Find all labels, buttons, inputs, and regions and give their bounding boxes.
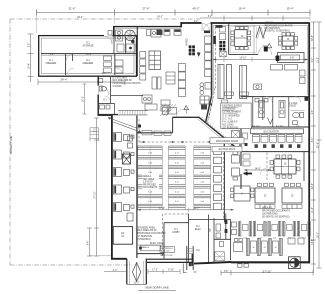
svg-text:16'-2": 16'-2" bbox=[83, 96, 85, 102]
mid prep column bbox=[178, 64, 185, 72]
svg-text:4 x4: 4 x4 bbox=[200, 162, 204, 164]
svg-text:10: 10 bbox=[264, 196, 267, 198]
mid 2-top square column bbox=[214, 148, 222, 210]
MAIN DINING ROOM label boxes bbox=[210, 138, 244, 144]
svg-text:24'-7": 24'-7" bbox=[194, 208, 200, 210]
step wall at x181 bbox=[180, 22, 182, 27]
svg-text:4 x4: 4 x4 bbox=[200, 172, 204, 174]
svg-text:17'-2": 17'-2" bbox=[152, 269, 158, 271]
svg-text:150 PERSONS: 150 PERSONS bbox=[262, 214, 278, 216]
svg-text:4 x4: 4 x4 bbox=[148, 201, 152, 203]
svg-text:27'-6": 27'-6" bbox=[142, 7, 149, 11]
dining top wall bbox=[181, 22, 310, 24]
bar stool bbox=[295, 136, 302, 142]
svg-text:8'-4": 8'-4" bbox=[88, 241, 90, 246]
prep room partition x114 bbox=[113, 37, 115, 54]
dim line 24-4 under freezer block bbox=[38, 81, 125, 83]
svg-text:4 STAFF: 4 STAFF bbox=[113, 85, 123, 88]
svg-text:D.1: D.1 bbox=[86, 43, 90, 45]
kitchen south equipment row bbox=[163, 108, 168, 115]
dining NE table 2 bbox=[283, 36, 294, 46]
restroom south wall bbox=[231, 126, 309, 128]
kitchen L-wall above corridor bbox=[173, 116, 200, 118]
travel path dashed in dining aisle bbox=[139, 141, 212, 143]
svg-text:5'-0": 5'-0" bbox=[95, 128, 97, 133]
property line left vertical dash-dot bbox=[9, 19, 11, 265]
svg-text:16: 16 bbox=[253, 247, 255, 249]
svg-text:6'-2": 6'-2" bbox=[208, 16, 213, 18]
bar counter band bbox=[251, 129, 304, 134]
extra range box left bbox=[147, 30, 151, 36]
storage door swing arc bbox=[105, 37, 113, 45]
SW rooms walls bbox=[189, 214, 231, 264]
GROUP: furniture and equipment bbox=[99, 25, 310, 267]
dining east aisle wall x224.5 bbox=[224, 139, 226, 222]
4-top cluster west of big tables bbox=[234, 186, 250, 201]
hatched dumbwaiter square bbox=[123, 154, 131, 164]
sink V between stalls bbox=[268, 118, 274, 125]
egress dash along slant divider bbox=[209, 88, 215, 118]
svg-text:16'-4": 16'-4" bbox=[238, 7, 245, 11]
bottom wall right section bbox=[231, 261, 310, 263]
svg-text:24'-4": 24'-4" bbox=[60, 78, 67, 82]
dark square grid at divider bbox=[219, 41, 222, 44]
svg-text:ELEV.: ELEV. bbox=[195, 229, 202, 231]
top dimension line bbox=[37, 12, 311, 14]
east room west closets bbox=[243, 133, 248, 139]
restroom block north wall bbox=[241, 96, 309, 98]
trash closet door arc bbox=[66, 55, 72, 61]
restroom stall fixtures bbox=[259, 101, 265, 118]
svg-text:MAIN DINING ROOM: MAIN DINING ROOM bbox=[216, 140, 238, 143]
exterior steps west bbox=[90, 128, 99, 141]
GROUP: building envelope bbox=[39, 22, 310, 284]
svg-text:PROPOSED OCCUPANTS: PROPOSED OCCUPANTS bbox=[265, 24, 293, 27]
svg-text:D.2: D.2 bbox=[196, 250, 200, 252]
tall equip columns kitchen south bbox=[152, 77, 157, 89]
label boxes on dining north wall bbox=[142, 130, 152, 135]
prep room lower sinks bbox=[117, 44, 124, 52]
shelving in freezer east room bbox=[104, 56, 112, 61]
west entry door arc bbox=[99, 85, 109, 95]
bottom wall west of vestibule bbox=[111, 258, 127, 260]
label boxes above text block bbox=[225, 92, 234, 95]
freezer partition west bbox=[65, 54, 67, 75]
A triangle marker kitchen bbox=[184, 106, 189, 110]
entry court dim vertical bbox=[84, 84, 86, 114]
right dim vertical outer bbox=[318, 22, 320, 268]
svg-text:4 x4: 4 x4 bbox=[175, 153, 179, 155]
right wall bbox=[308, 23, 310, 264]
svg-text:2'-8": 2'-8" bbox=[29, 43, 31, 48]
svg-text:3'-8": 3'-8" bbox=[224, 271, 229, 273]
left wall equipment stack bbox=[140, 52, 146, 59]
svg-text:16'-0": 16'-0" bbox=[318, 232, 320, 238]
svg-text:10: 10 bbox=[287, 39, 290, 41]
GROUP: interior walls bbox=[41, 24, 309, 273]
svg-text:4 x4: 4 x4 bbox=[148, 191, 152, 193]
svg-text:NET AREA: NET AREA bbox=[143, 178, 155, 181]
bar stool bbox=[261, 136, 268, 142]
dark corner blob bbox=[305, 97, 309, 101]
box with circle bbox=[254, 84, 262, 90]
svg-text:10: 10 bbox=[284, 164, 287, 166]
west wall middle bbox=[97, 76, 99, 116]
svg-text:25'-6": 25'-6" bbox=[318, 142, 320, 148]
svg-text:10: 10 bbox=[241, 36, 244, 38]
dim arrow inside dining top bbox=[213, 59, 308, 61]
freezer partition east bbox=[114, 54, 116, 75]
kitchen south equip group bbox=[142, 95, 152, 103]
svg-text:AIR LOCK: AIR LOCK bbox=[161, 249, 170, 252]
svg-text:36'-8": 36'-8" bbox=[312, 35, 314, 41]
prep room partition x125.6 bbox=[125, 37, 127, 54]
spiral stair/mixer bbox=[125, 30, 135, 40]
svg-text:D.1 ADA: D.1 ADA bbox=[289, 102, 298, 105]
svg-text:D.1: D.1 bbox=[49, 60, 53, 62]
svg-text:FREEZER: FREEZER bbox=[46, 63, 57, 65]
property line bottom dash-dot bbox=[10, 264, 132, 266]
svg-text:16'-4": 16'-4" bbox=[29, 63, 31, 69]
svg-text:8'-0": 8'-0" bbox=[312, 138, 314, 143]
top entry door gap bbox=[202, 22, 211, 24]
svg-text:257 PERSONS: 257 PERSONS bbox=[222, 127, 238, 129]
svg-text:NET AREA 933 SF: NET AREA 933 SF bbox=[113, 79, 133, 82]
svg-text:PROPOSED OCCUPANTS: PROPOSED OCCUPANTS bbox=[262, 210, 290, 213]
svg-text:14'-0": 14'-0" bbox=[255, 168, 261, 170]
A triangle marker dining bbox=[267, 44, 272, 48]
kitchen top wall bbox=[114, 26, 183, 28]
kitchen toilet room east wall bbox=[110, 77, 112, 103]
private dining room walls bbox=[229, 24, 258, 55]
GROUP: egress paths and dimension arrows bbox=[108, 27, 308, 256]
egress dashed east section bbox=[266, 153, 268, 181]
svg-text:(E) HIGH ROOF: (E) HIGH ROOF bbox=[219, 149, 236, 151]
svg-text:TOILET: TOILET bbox=[289, 106, 298, 108]
svg-text:O.G.: MODIFIED: O.G.: MODIFIED bbox=[222, 115, 240, 117]
svg-text:HOOD: HOOD bbox=[187, 38, 189, 45]
west dim vertical long bbox=[96, 118, 98, 256]
svg-text:9'-6": 9'-6" bbox=[312, 110, 314, 115]
dining NW long diagonal wall bbox=[199, 117, 241, 151]
bottom wall mid section bbox=[194, 262, 231, 264]
six-burner dark grid bbox=[189, 45, 192, 48]
svg-text:5'-10": 5'-10" bbox=[168, 269, 174, 271]
box with X below bbox=[220, 51, 227, 57]
kitchen west sink boxes bbox=[116, 30, 123, 41]
street line under NEW DORP LANE bbox=[138, 290, 176, 292]
svg-text:PANEL A: PANEL A bbox=[142, 246, 150, 249]
svg-text:4'-0": 4'-0" bbox=[113, 270, 118, 272]
private dining table 1 bbox=[235, 30, 248, 47]
svg-text:11'-2": 11'-2" bbox=[134, 282, 140, 284]
svg-text:D.1 KITCHEN: D.1 KITCHEN bbox=[113, 77, 128, 79]
kitchen toilet room south wall bbox=[99, 102, 115, 104]
svg-text:4 x4: 4 x4 bbox=[200, 182, 204, 184]
AREA A text mid over stripes bbox=[143, 175, 160, 190]
kitchen south wall at y114.5 bbox=[99, 114, 119, 116]
kitchen/dining divider wall upper bbox=[211, 24, 213, 96]
top dim extension stubs bbox=[37, 13, 311, 34]
ADA toilet bbox=[293, 112, 300, 117]
svg-text:9'-2": 9'-2" bbox=[194, 21, 199, 23]
hatch ticks along diagonal wall bbox=[201, 117, 232, 143]
private room inner finish line bbox=[231, 27, 257, 53]
svg-text:14'-6": 14'-6" bbox=[312, 239, 314, 245]
2-top clusters along x241 wall bbox=[232, 155, 240, 163]
egress dashed vertical at lobby corridor bbox=[138, 119, 140, 142]
west entry door gap bbox=[97, 86, 100, 95]
svg-text:AREA A: AREA A bbox=[143, 175, 152, 178]
kitchen west wall x137.5 full bbox=[136, 27, 138, 76]
svg-text:D.1: D.1 bbox=[86, 60, 90, 62]
svg-text:22'-4": 22'-4" bbox=[312, 183, 314, 189]
svg-text:(6 SEATS, 16 SEATING): (6 SEATS, 16 SEATING) bbox=[265, 30, 290, 33]
secondary dim line top right bbox=[200, 17, 310, 19]
left dim vertical for storage block bbox=[30, 34, 32, 82]
banquet table east room bbox=[274, 159, 296, 174]
svg-text:AREA B: AREA B bbox=[265, 22, 274, 25]
label boxes electrical bbox=[141, 245, 161, 251]
bottom dim line right bbox=[221, 272, 313, 274]
storage top wall door gap bbox=[104, 33, 113, 36]
boxes on east wall x241 bbox=[232, 131, 240, 139]
tall counters below private room bbox=[218, 65, 224, 99]
svg-text:14'-6": 14'-6" bbox=[86, 54, 92, 56]
closet partition below toilet bbox=[114, 103, 116, 115]
svg-text:57'-10": 57'-10" bbox=[263, 270, 272, 274]
svg-text:4 x4: 4 x4 bbox=[200, 153, 204, 155]
private room door arcs bbox=[259, 46, 272, 55]
EXISTING EATING text block bbox=[221, 103, 251, 129]
svg-text:PROPOSED OCCUPANTS: PROPOSED OCCUPANTS bbox=[113, 82, 141, 85]
storage/freezer divider horizontal bbox=[41, 53, 136, 55]
bar south wall y151.5 bbox=[241, 151, 309, 153]
dim arrow banquet aisle bbox=[244, 169, 271, 171]
svg-text:16: 16 bbox=[275, 247, 277, 249]
range boxes on kitchen top wall bbox=[151, 30, 161, 38]
bar stool bbox=[278, 136, 285, 142]
svg-text:4'-2": 4'-2" bbox=[50, 54, 55, 56]
big square table A bbox=[255, 188, 275, 203]
divider equipment column bbox=[205, 36, 212, 44]
right dim vertical inner bbox=[313, 22, 315, 273]
svg-text:15'-4": 15'-4" bbox=[286, 7, 293, 11]
svg-text:PROPOSED: PROPOSED bbox=[143, 184, 156, 186]
dining north wall west part bbox=[137, 132, 173, 134]
bottom row2 bench tables bbox=[234, 238, 305, 267]
divider slanted section bbox=[206, 96, 212, 124]
lobby west wall x164 bbox=[163, 223, 165, 259]
dim stub left of vestibule bbox=[104, 271, 126, 273]
svg-text:STORAGE: STORAGE bbox=[82, 45, 94, 48]
bar stool bbox=[270, 136, 277, 142]
kitchen counter edge y95.5 bbox=[111, 95, 143, 97]
svg-text:40'-2": 40'-2" bbox=[192, 7, 199, 11]
svg-text:ESTABLISHMENT: ESTABLISHMENT bbox=[222, 111, 242, 114]
restroom door arcs bbox=[266, 97, 301, 104]
svg-text:4 x4: 4 x4 bbox=[175, 191, 179, 193]
dark sq near divider bbox=[138, 125, 141, 128]
svg-text:LP: LP bbox=[121, 236, 124, 238]
svg-text:16: 16 bbox=[264, 247, 266, 249]
boxes below service counter bbox=[271, 65, 283, 71]
svg-text:4 x4: 4 x4 bbox=[200, 191, 204, 193]
svg-text:4 x4: 4 x4 bbox=[175, 201, 179, 203]
step wall at x114 bbox=[113, 26, 115, 37]
svg-text:FREEZER: FREEZER bbox=[83, 63, 94, 65]
bar stool bbox=[253, 136, 260, 142]
entry circle feature bottom right bbox=[289, 257, 301, 269]
banquet room east wall bbox=[303, 152, 305, 181]
dark blobs on wall x226 bbox=[225, 220, 228, 224]
svg-text:ELEC. PANEL: ELEC. PANEL bbox=[150, 242, 165, 245]
big square table B bbox=[282, 188, 302, 203]
vestibule walls bbox=[127, 259, 147, 285]
svg-text:NO PERSONS: NO PERSONS bbox=[265, 28, 281, 30]
svg-text:37'-10": 37'-10" bbox=[95, 191, 97, 198]
svg-text:6'-8": 6'-8" bbox=[290, 58, 295, 60]
step from L-wall down to dining west wall bbox=[172, 117, 174, 133]
freezer door swings bbox=[67, 68, 122, 75]
shelving kitchen strip bbox=[115, 60, 123, 66]
prep grid near slant wall bbox=[200, 96, 209, 104]
corridor line above electrical bbox=[137, 244, 164, 246]
private room east wall segment bbox=[253, 25, 255, 55]
storage block outer wall bbox=[39, 36, 137, 77]
property line top dash-dot bbox=[10, 18, 200, 20]
svg-text:D.G.: A-2: D.G.: A-2 bbox=[222, 118, 232, 121]
svg-text:13'-10": 13'-10" bbox=[239, 58, 246, 60]
svg-text:4 x4: 4 x4 bbox=[175, 162, 179, 164]
dim arrow main aisle y209.8 bbox=[138, 209, 235, 211]
dark blob on divider bbox=[216, 25, 223, 28]
ramp band in kitchen bbox=[118, 111, 148, 115]
jog wall at y115 bbox=[98, 114, 112, 116]
entry threshold dark bar bbox=[204, 31, 210, 34]
svg-text:12'-2": 12'-2" bbox=[318, 57, 320, 63]
small boxes above divider base bbox=[220, 27, 226, 33]
svg-text:4 x4: 4 x4 bbox=[148, 162, 152, 164]
svg-text:6'-2": 6'-2" bbox=[312, 58, 314, 63]
svg-text:4 x4: 4 x4 bbox=[175, 172, 179, 174]
svg-text:11'-4": 11'-4" bbox=[312, 207, 314, 213]
svg-text:D.1: D.1 bbox=[196, 226, 200, 228]
svg-text:PROPERTY LINE: PROPERTY LINE bbox=[11, 135, 13, 154]
svg-text:4 x4: 4 x4 bbox=[148, 153, 152, 155]
svg-text:OCCUPANTS: OCCUPANTS bbox=[143, 186, 158, 189]
svg-text:CAPACITY 300: CAPACITY 300 bbox=[160, 254, 172, 257]
toilet room fixtures bbox=[99, 79, 103, 83]
svg-text:NEW DORP LANE: NEW DORP LANE bbox=[145, 286, 169, 290]
svg-text:4'-0" 6'-2": 4'-0" 6'-2" bbox=[276, 125, 284, 127]
top entry door arcs bbox=[202, 24, 211, 32]
svg-text:F.A.: 8,368 S.F.: F.A.: 8,368 S.F. bbox=[222, 121, 238, 124]
lobby/dining divider wall x137 bbox=[136, 116, 138, 259]
dark triangle exit marker kitchen bbox=[197, 53, 201, 57]
bottom wall lobby section double bbox=[147, 258, 192, 260]
svg-text:D.1: D.1 bbox=[174, 229, 178, 231]
left D2 room bbox=[113, 227, 132, 245]
SW rooms fixtures bbox=[216, 224, 221, 231]
svg-text:EXISTING EATING: EXISTING EATING bbox=[222, 104, 242, 107]
svg-text:PROPOSED OCCUPANTS: PROPOSED OCCUPANTS bbox=[138, 232, 166, 235]
bottom dim line near vestibule bbox=[148, 271, 180, 273]
third small dim line bbox=[183, 22, 211, 24]
west dim vertical short bbox=[89, 228, 91, 256]
restroom partitions bbox=[253, 97, 289, 127]
svg-text:31'-6": 31'-6" bbox=[68, 7, 75, 11]
storage block inner wall line bbox=[41, 38, 134, 74]
service counter right bbox=[278, 53, 305, 63]
svg-text:14'-2": 14'-2" bbox=[157, 16, 163, 18]
sidewalk edge line bottom-left bbox=[89, 255, 111, 257]
egress dashed along x223.5 bbox=[222, 140, 224, 220]
svg-text:D2: D2 bbox=[121, 233, 125, 235]
bottom booth row1 bbox=[239, 222, 311, 240]
lobby north wall bbox=[164, 222, 189, 224]
closet fixtures bbox=[100, 105, 105, 109]
svg-text:NO. LOAD:: NO. LOAD: bbox=[222, 124, 234, 127]
egress dashed to vestibule bbox=[163, 214, 189, 256]
svg-text:UP: UP bbox=[210, 228, 212, 232]
exit travel diagonal arrows west corridor bbox=[108, 118, 141, 133]
svg-text:4 x4: 4 x4 bbox=[175, 182, 179, 184]
svg-text:10: 10 bbox=[291, 196, 294, 198]
svg-text:4 x4: 4 x4 bbox=[148, 172, 152, 174]
svg-text:(50 SEATS, NO SEATING): (50 SEATS, NO SEATING) bbox=[262, 215, 290, 218]
vestibule diamond door symbol bbox=[132, 263, 140, 282]
west wall lower bbox=[111, 115, 113, 260]
restroom corridor door arcs bbox=[227, 114, 246, 127]
right wall squares bbox=[300, 70, 306, 76]
top dim ticks bbox=[37, 10, 311, 16]
svg-text:17'-0": 17'-0" bbox=[159, 208, 165, 210]
svg-text:4 x4: 4 x4 bbox=[200, 201, 204, 203]
svg-text:STANDEE AREA: STANDEE AREA bbox=[138, 226, 156, 229]
west column 2-top booths bbox=[114, 133, 135, 222]
svg-text:(E) COUNTER: (E) COUNTER bbox=[263, 131, 278, 133]
svg-text:3'-6" 5'-2": 3'-6" 5'-2" bbox=[252, 125, 260, 127]
kitchen island grid bbox=[149, 51, 161, 70]
svg-text:2,343 S.F.: 2,343 S.F. bbox=[143, 182, 154, 184]
zigzag screen bbox=[256, 27, 267, 39]
svg-text:D.1: D.1 bbox=[103, 100, 107, 102]
electrical wall bbox=[137, 253, 164, 255]
svg-text:(STANDING): (STANDING) bbox=[138, 238, 151, 241]
booth stripe columns main dining bbox=[138, 146, 211, 210]
bar stool bbox=[287, 136, 294, 142]
trash closet partition bbox=[72, 54, 74, 61]
svg-text:7'-2": 7'-2" bbox=[296, 125, 300, 127]
svg-text:17 PERSONS: 17 PERSONS bbox=[138, 236, 153, 238]
svg-text:NET AREA 200 SF: NET AREA 200 SF bbox=[138, 229, 158, 232]
stair hatch box SW bbox=[215, 252, 225, 261]
areaway exit passage bbox=[187, 246, 193, 270]
svg-text:AREA A-1: AREA A-1 bbox=[262, 207, 273, 210]
east section west wall x241 bbox=[240, 127, 242, 189]
svg-text:34'-2": 34'-2" bbox=[77, 17, 83, 19]
svg-text:LOBBY: LOBBY bbox=[172, 232, 180, 234]
svg-text:4 x4: 4 x4 bbox=[273, 238, 276, 240]
svg-text:8: 8 bbox=[241, 194, 243, 196]
stool circles at divider bbox=[200, 83, 204, 87]
